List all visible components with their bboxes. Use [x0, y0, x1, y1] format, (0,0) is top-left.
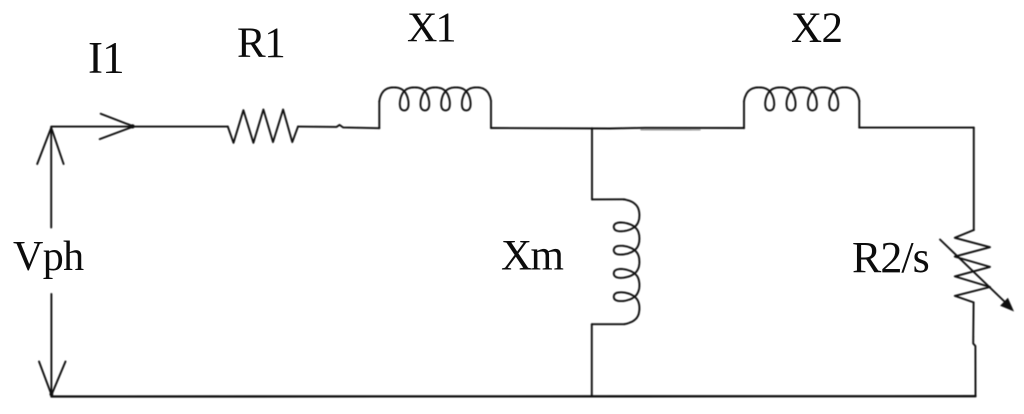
wire: Xm bottom connector	[592, 323, 625, 325]
inductor X2 coil	[744, 87, 859, 110]
arrowhead: Vph up arrow barb left	[37, 128, 51, 164]
wire: middle branch lower vertical	[591, 324, 593, 396]
wire: middle branch vertical	[591, 128, 593, 199]
inductor X1 coil	[379, 87, 491, 110]
wire: top right segment	[859, 127, 974, 129]
svg-text:X1: X1	[407, 5, 455, 51]
arrow through R2/s head	[1000, 298, 1014, 312]
svg-text:R1: R1	[237, 20, 284, 67]
wire: right vertical lower	[973, 302, 975, 396]
resistor R2/s	[955, 230, 990, 302]
arrowhead: Vph down arrow barb right	[52, 362, 66, 395]
wire: left vertical upper segment	[50, 127, 52, 228]
inductor X2 riser right	[858, 101, 860, 128]
svg-text:X2: X2	[791, 5, 843, 52]
wire: Xm top connector	[592, 198, 624, 200]
arrowhead: I1 current arrow lower barb	[100, 127, 134, 140]
inductor X2 riser left	[743, 101, 745, 128]
wire: top left segment	[51, 126, 228, 128]
wire: R1 to X1	[298, 125, 379, 128]
wire: left vertical lower segment	[50, 294, 52, 394]
wire: X1 to X2 top segment	[491, 127, 744, 130]
inductor X1 riser right	[490, 101, 492, 128]
arrowhead: Vph down arrow barb left	[39, 362, 51, 395]
wire: bottom	[51, 395, 975, 398]
inductor X1 riser left	[378, 101, 380, 128]
svg-text:I1: I1	[88, 33, 124, 83]
wire: scan artifact doubling	[641, 129, 700, 131]
node: Vph down arrow tip dot	[50, 392, 54, 396]
arrowhead: Vph up arrow barb right	[51, 128, 63, 164]
wire: right vertical upper	[973, 128, 975, 230]
svg-text:Vph: Vph	[13, 234, 84, 280]
arrowhead: I1 current arrow upper barb	[101, 114, 134, 127]
resistor R1	[228, 110, 298, 143]
node: I1 arrow tip dot	[131, 124, 135, 128]
svg-text:R2/s: R2/s	[852, 233, 929, 282]
svg-text:Xm: Xm	[501, 233, 563, 280]
inductor Xm coil	[614, 199, 640, 324]
arrow through R2/s shaft	[940, 240, 1006, 304]
